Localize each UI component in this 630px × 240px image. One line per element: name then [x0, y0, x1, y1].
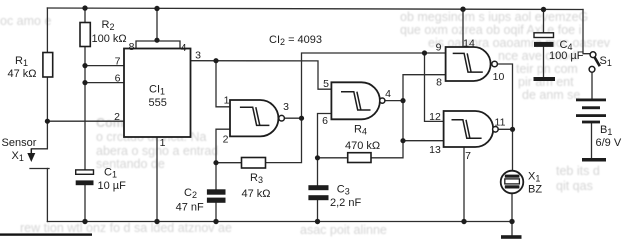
- gate CI2b NAND (pins 5,6,4): [322, 78, 391, 127]
- svg-text:6/9 V: 6/9 V: [596, 137, 622, 149]
- svg-text:6: 6: [115, 73, 121, 85]
- node R3 left: [213, 160, 218, 165]
- wire gate1 pin2 to R3/C2 node: [216, 129, 230, 189]
- wire S1 branch from top rail: [583, 10, 590, 54]
- switch S1: [589, 52, 612, 72]
- node bracket / top wire: [154, 38, 159, 43]
- node top rail / pin14: [460, 7, 465, 12]
- wire bottom rail: [47, 221, 512, 223]
- capacitor C1: [76, 167, 126, 193]
- svg-text:10: 10: [493, 71, 505, 83]
- svg-text:3: 3: [283, 101, 289, 113]
- svg-text:R2: R2: [102, 19, 115, 32]
- resistor R3: [242, 158, 271, 201]
- svg-text:2,2 nF: 2,2 nF: [330, 197, 361, 209]
- node top rail / 555 bracket: [154, 6, 159, 11]
- gate CI2a NAND (pins 1,2,3): [223, 95, 290, 146]
- svg-text:teb its d: teb its d: [556, 164, 600, 178]
- svg-text:qit qas: qit qas: [556, 179, 593, 193]
- wire pin13 gate4: [403, 140, 444, 142]
- node top rail / C4: [541, 7, 546, 12]
- capacitor C4: [534, 33, 584, 62]
- resistor R1: [8, 53, 53, 81]
- wire gate2 output: [385, 100, 403, 102]
- wire pin2 555: [47, 120, 124, 122]
- node bottom rail / pin1: [154, 219, 159, 224]
- svg-text:de anm se: de anm se: [522, 88, 580, 102]
- wire sensor to bottom rail: [46, 169, 48, 222]
- svg-text:14: 14: [463, 38, 475, 50]
- wire R3 left lead: [216, 162, 242, 164]
- svg-text:B1: B1: [600, 124, 612, 137]
- svg-text:R4: R4: [354, 124, 367, 137]
- svg-text:4: 4: [181, 42, 187, 54]
- svg-text:6: 6: [322, 115, 328, 127]
- wire pin9 node down to gate4 pin12: [425, 53, 444, 121]
- svg-text:555: 555: [149, 97, 167, 109]
- svg-text:S1: S1: [600, 55, 612, 68]
- node pin7 / R2 branch: [82, 63, 87, 68]
- svg-text:10 µF: 10 µF: [98, 180, 127, 192]
- svg-text:47 nF: 47 nF: [176, 202, 204, 214]
- svg-text:4: 4: [385, 88, 391, 100]
- ground bar C4: [534, 77, 556, 81]
- resistor R4: [345, 124, 380, 163]
- wire pin1 555 to bottom rail: [156, 137, 158, 222]
- node pin3 / gate1 in: [213, 58, 218, 63]
- wire pins 8-4 bracket of 555: [136, 41, 180, 49]
- gate CI2d NAND (pins 12,13,11,7): [429, 111, 505, 162]
- svg-text:5: 5: [323, 78, 329, 90]
- wire pin6 555: [85, 82, 124, 84]
- svg-text:C3: C3: [337, 184, 350, 197]
- svg-text:7: 7: [465, 150, 471, 162]
- node gate4 out / buzzer rail: [510, 127, 515, 132]
- resistor R2: [80, 19, 127, 47]
- page crop bar bottom left: [0, 233, 92, 235]
- svg-text:2: 2: [223, 134, 229, 146]
- wire sensor node down: [31, 121, 47, 149]
- battery B1: [576, 99, 622, 162]
- wire top rail: [47, 8, 583, 10]
- wire buzzer to bottom rail: [511, 193, 513, 221]
- node bottom rail / C1: [82, 219, 87, 224]
- svg-text:100 kΩ: 100 kΩ: [92, 33, 127, 45]
- node bottom rail / buzzer: [509, 219, 514, 224]
- svg-text:3: 3: [195, 50, 201, 62]
- wire C3 to bottom rail: [317, 200, 319, 221]
- wire R2 down to C1: [84, 47, 86, 171]
- node R4 left: [315, 155, 320, 160]
- wire R3 right lead up to pin9 line: [266, 53, 446, 163]
- svg-text:teir pn com: teir pn com: [516, 62, 578, 76]
- svg-text:470 kΩ: 470 kΩ: [345, 140, 380, 152]
- wire pin7 555: [85, 65, 124, 67]
- node bottom rail / C3: [315, 219, 320, 224]
- wire gate2 pin6 to R4/C3 node: [318, 114, 332, 186]
- svg-text:13: 13: [429, 144, 441, 156]
- svg-text:47 kΩ: 47 kΩ: [8, 68, 37, 80]
- wire top rail to bracket: [156, 9, 158, 41]
- svg-text:rew tion wtl onz fo d sa lded: rew tion wtl onz fo d sa lded atznov ae: [20, 221, 232, 235]
- wire gate1 output: [285, 117, 302, 119]
- node top rail / R2: [82, 5, 87, 10]
- gate CI2c NAND (pins 9,8,14,10): [436, 38, 505, 89]
- wire sensor lower electrode: [30, 168, 49, 170]
- wire gate3 pin14 to top rail: [462, 9, 464, 47]
- node pin13 branch: [400, 138, 405, 143]
- svg-text:11: 11: [495, 117, 506, 129]
- wire battery to ground bar: [591, 123, 593, 158]
- wire top rail to R2: [84, 8, 86, 23]
- capacitor C2: [176, 187, 226, 214]
- node pin9 line / pin12 branch: [422, 50, 427, 55]
- wire gate4 output: [498, 128, 512, 130]
- sensor X1: [2, 137, 37, 163]
- wire pin3 node down to gate1 pin1: [216, 61, 230, 107]
- svg-text:8: 8: [436, 77, 442, 89]
- node pin6 / R2 branch: [82, 80, 87, 85]
- wire S1 to battery: [591, 72, 593, 98]
- wire R1 to sensor node: [46, 77, 48, 121]
- node gate2 out: [400, 98, 405, 103]
- ground bottom rail: [501, 235, 522, 239]
- svg-text:9: 9: [436, 42, 442, 54]
- wire pin3 555 output to gate2 pin5: [191, 61, 332, 89]
- svg-text:12: 12: [429, 111, 441, 123]
- wire gate3 output down to buzzer: [498, 64, 513, 171]
- wire R4 left lead: [318, 157, 348, 159]
- IC CI1 555 timer: [114, 41, 201, 149]
- svg-text:1: 1: [224, 95, 230, 107]
- svg-text:ob megsinom s iups aol evemzeG: ob megsinom s iups aol evemzeG: [400, 10, 588, 24]
- wire C2 to bottom rail: [215, 203, 217, 222]
- wire C1 to bottom rail: [84, 185, 86, 222]
- wire R4 right lead up: [371, 75, 446, 158]
- wire gate4 pin7 to bottom rail: [463, 147, 465, 222]
- node sensor / pin2: [45, 119, 50, 124]
- node bottom rail / C2: [213, 219, 218, 224]
- ground bar battery: [582, 158, 606, 162]
- svg-text:Sensor: Sensor: [2, 137, 37, 149]
- svg-text:2: 2: [114, 111, 120, 123]
- wire C4 to ground bar: [543, 47, 545, 77]
- svg-text:7: 7: [115, 56, 121, 68]
- svg-text:CI2 = 4093: CI2 = 4093: [269, 34, 322, 47]
- svg-text:R1: R1: [15, 55, 28, 68]
- svg-text:100 µF: 100 µF: [549, 50, 584, 62]
- node gate1 out: [299, 116, 304, 121]
- svg-text:oc amo e: oc amo e: [0, 14, 51, 28]
- capacitor C3: [308, 184, 361, 210]
- svg-text:47 kΩ: 47 kΩ: [242, 188, 271, 200]
- svg-text:C2: C2: [184, 187, 197, 200]
- svg-text:8: 8: [129, 41, 135, 53]
- svg-text:X1: X1: [12, 150, 24, 163]
- svg-text:BZ: BZ: [528, 184, 542, 196]
- buzzer X1 BZ: [501, 171, 543, 196]
- wire top rail to C4: [543, 10, 545, 33]
- svg-text:X1: X1: [528, 171, 540, 184]
- svg-text:asac poit alinne: asac poit alinne: [300, 223, 387, 237]
- node bottom rail / pin7: [461, 219, 466, 224]
- wire bottom rail to ground: [511, 222, 513, 236]
- svg-text:R3: R3: [250, 172, 263, 185]
- svg-text:1: 1: [160, 137, 166, 149]
- wire left rail to R1: [46, 8, 48, 53]
